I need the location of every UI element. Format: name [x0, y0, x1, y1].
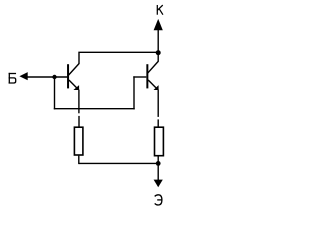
wire: Q2 emitter drop, upper segment: [157, 90, 159, 117]
wire: VT2 collector riser to junction: [157, 53, 159, 62]
VT2 emitter diagonal: [148, 80, 156, 88]
wire: VT2 base lead: [133, 76, 146, 78]
wire: VT1 emitter drop, upper segment: [78, 90, 80, 114]
wire: emitter bottom bus: [79, 162, 158, 164]
terminal label Э (emitter): [155, 195, 162, 205]
VT2 emitter arrowhead: [154, 85, 159, 90]
wire: VT1 emitter drop, lower segment: [78, 116, 80, 127]
resistor R1 (left): [74, 127, 83, 155]
terminal label Б (base): [9, 74, 15, 84]
wire: Э arrow stem: [157, 163, 159, 180]
node: collector junction dot: [156, 50, 161, 55]
terminal arrow Э (pointing down): [154, 180, 163, 188]
node: base junction dot: [52, 75, 56, 79]
wire: base lead from Б arrow to VT1: [27, 76, 67, 78]
wire: top collector bus with Q1 riser corner: [79, 52, 158, 64]
terminal arrow К (pointing up): [154, 19, 163, 30]
wire: base loop, left vertical: [54, 77, 56, 109]
VT1 emitter arrowhead: [73, 85, 79, 90]
node: emitter junction dot: [156, 161, 161, 166]
VT2 collector diagonal: [148, 61, 159, 73]
wire: R2 bottom lead: [157, 156, 159, 163]
VT1 collector diagonal: [68, 64, 79, 76]
wire: base loop, bottom horizontal: [54, 108, 135, 110]
wire: Q2 emitter drop, lower segment: [157, 119, 159, 126]
transistor VT2 (right NPN): [147, 61, 158, 90]
terminal arrow Б (pointing left): [19, 72, 27, 80]
resistor R2 (right): [155, 127, 164, 156]
transistor VT1 (left NPN): [68, 64, 79, 90]
VT2 base bar: [146, 64, 148, 88]
wire: R1 bottom lead: [78, 156, 80, 165]
VT1 emitter diagonal: [69, 80, 77, 88]
wire: К arrow stem: [157, 30, 159, 54]
VT1 base bar: [67, 64, 69, 88]
terminal label К (collector): [157, 6, 162, 15]
wire: base loop, right vertical: [133, 76, 135, 109]
